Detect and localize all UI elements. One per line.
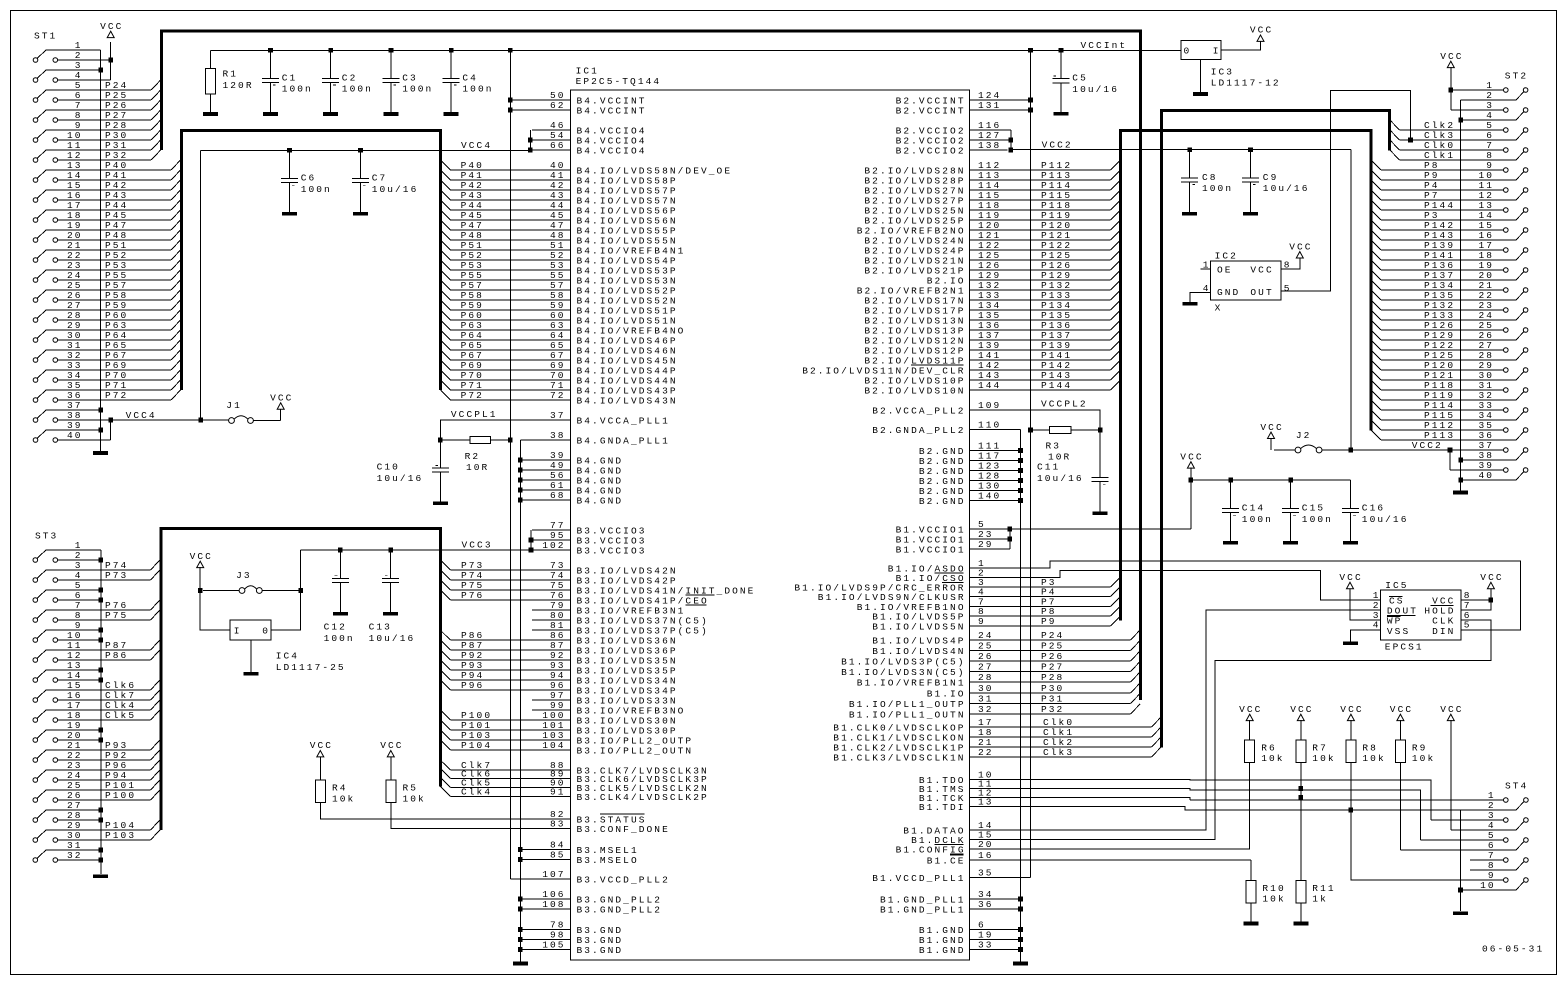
svg-text:0: 0 — [1184, 45, 1192, 56]
svg-text:06-05-31: 06-05-31 — [1482, 944, 1544, 955]
svg-text:10u/16: 10u/16 — [1072, 84, 1119, 95]
svg-text:10u/16: 10u/16 — [1362, 514, 1409, 525]
svg-text:R7: R7 — [1312, 742, 1328, 753]
svg-text:B4.VCCINT: B4.VCCINT — [577, 105, 647, 116]
capacitor C16 10u/16 — [1342, 480, 1408, 541]
svg-text:P72: P72 — [105, 390, 128, 401]
ground R11 — [1293, 922, 1308, 926]
wire TCK net IC1 pin12 to ST4 pin1 — [1008, 798, 1191, 801]
IC1 right pins: stubs, numbers, names — [794, 90, 1007, 956]
svg-text:B1.IO/LVDS4N: B1.IO/LVDS4N — [872, 646, 965, 657]
svg-text:OUT: OUT — [1250, 287, 1273, 298]
wire IC2 OUT to Clk3 net — [1281, 90, 1413, 291]
node VCC2 label — [1042, 139, 1073, 150]
capacitor C11 10u/16 — [1037, 430, 1109, 511]
svg-text:VCC: VCC — [1250, 25, 1273, 36]
svg-text:10u/16: 10u/16 — [1037, 473, 1084, 484]
wire bundle P24-P32 IC1 to bus A with labels — [1008, 630, 1141, 715]
date stamp — [1482, 944, 1544, 955]
svg-text:P103: P103 — [105, 830, 136, 841]
svg-text:P96: P96 — [461, 680, 484, 691]
capacitor C5 10u/16 — [1053, 50, 1119, 111]
ground C4 — [444, 112, 459, 116]
svg-text:DIN: DIN — [1432, 626, 1455, 637]
svg-text:B4.VCCIO4: B4.VCCIO4 — [577, 145, 647, 156]
svg-text:68: 68 — [550, 490, 566, 501]
ST3 signal fan diagonals into bus C — [151, 560, 161, 840]
svg-text:35: 35 — [978, 868, 994, 879]
svg-text:B1.CLK3/LVDSCLK1N: B1.CLK3/LVDSCLK1N — [833, 752, 965, 763]
wire J1 to VCC — [280, 409, 282, 420]
svg-text:B1.IO: B1.IO — [927, 688, 966, 699]
connector ST1 header — [33, 30, 201, 442]
svg-text:Clk3: Clk3 — [1043, 747, 1074, 758]
svg-text:138: 138 — [978, 140, 1001, 151]
jumper J2 with VCC to VCC2 — [1274, 430, 1351, 453]
svg-text:91: 91 — [550, 787, 566, 798]
svg-text:5: 5 — [1284, 283, 1292, 294]
bus D thick: P112-P144 / ST2 loop — [1121, 130, 1371, 620]
VCC symbol at IC5 WP — [1339, 572, 1362, 589]
svg-text:VCC: VCC — [1440, 704, 1463, 715]
svg-text:R5: R5 — [403, 782, 419, 793]
svg-text:108: 108 — [542, 899, 565, 910]
ST2 GND rail pins 2,4,38,40 — [1458, 100, 1463, 491]
svg-text:C2: C2 — [342, 72, 358, 83]
ground C5 — [1054, 112, 1069, 116]
svg-text:B3.MSELO: B3.MSELO — [577, 855, 639, 866]
wire TDI net IC1 pin13 — [1008, 807, 1461, 811]
svg-text:X: X — [1215, 303, 1223, 314]
svg-text:P73: P73 — [105, 570, 128, 581]
svg-text:16: 16 — [978, 850, 994, 861]
ST1 GND rail x=100.6 with junctions — [98, 50, 103, 451]
oscillator IC2 — [1203, 251, 1292, 314]
svg-text:P27: P27 — [1041, 662, 1064, 673]
svg-text:B2.VCCIO2: B2.VCCIO2 — [896, 145, 966, 156]
svg-text:107: 107 — [542, 869, 565, 880]
svg-text:B1.VCCIO1: B1.VCCIO1 — [896, 544, 966, 555]
svg-text:C5: C5 — [1072, 73, 1088, 84]
svg-text:R6: R6 — [1261, 742, 1277, 753]
wire bundle P73-P76 P86-P104 Clk from bus C to IC1 with labels — [440, 560, 532, 798]
svg-text:VCC: VCC — [1260, 422, 1283, 433]
svg-text:10k: 10k — [1412, 753, 1435, 764]
ground C7 — [353, 212, 368, 216]
svg-text:R3: R3 — [1046, 441, 1062, 452]
svg-text:28: 28 — [978, 672, 994, 683]
svg-text:B1.IO/LVDS3P(C5): B1.IO/LVDS3P(C5) — [841, 656, 966, 667]
resistor R8 10k with VCC TDI pullup — [1340, 704, 1385, 880]
svg-text:B1.IO/PLL1_OUTN: B1.IO/PLL1_OUTN — [849, 709, 966, 720]
node VCC4 label — [461, 140, 492, 151]
svg-text:VCC: VCC — [1250, 265, 1273, 276]
VCC symbol at IC5 pin8 — [1480, 572, 1503, 589]
svg-text:VCC4: VCC4 — [126, 410, 157, 421]
jumper J1 — [201, 400, 281, 423]
svg-text:36: 36 — [978, 899, 994, 910]
svg-text:VCC: VCC — [190, 551, 213, 562]
svg-text:C1: C1 — [282, 72, 298, 83]
svg-text:VCC: VCC — [1339, 572, 1362, 583]
svg-text:B2.VCCINT: B2.VCCINT — [896, 105, 966, 116]
svg-text:B1.IO/PLL1_OUTP: B1.IO/PLL1_OUTP — [849, 699, 966, 710]
svg-text:B2.GND: B2.GND — [919, 496, 966, 507]
svg-text:B1.GND: B1.GND — [919, 945, 966, 956]
ST1 VCC rail x=110.7 — [108, 42, 113, 80]
svg-text:B1.VCCD_PLL1: B1.VCCD_PLL1 — [872, 873, 965, 884]
svg-text:P144: P144 — [1041, 380, 1072, 391]
svg-text:C9: C9 — [1263, 172, 1279, 183]
svg-text:26: 26 — [978, 651, 994, 662]
wire IC5 pin3 WP to VCC — [1350, 589, 1380, 620]
svg-text:C4: C4 — [462, 72, 478, 83]
svg-text:VCC: VCC — [1340, 704, 1363, 715]
svg-text:EP2C5-TQ144: EP2C5-TQ144 — [576, 76, 662, 87]
VCC symbol above C14 — [1180, 451, 1203, 482]
ground C11 — [1093, 511, 1108, 515]
capacitor C7 10u/16 — [352, 150, 418, 212]
svg-text:J1: J1 — [226, 400, 242, 411]
svg-text:VCC4: VCC4 — [461, 140, 492, 151]
ST3 GND rail x=100.9 junctions — [99, 550, 104, 874]
capacitor C9 10u/16 — [1242, 150, 1309, 212]
svg-text:29: 29 — [978, 539, 994, 550]
svg-text:C14: C14 — [1242, 503, 1265, 514]
svg-text:IC2: IC2 — [1215, 251, 1238, 262]
node VCCInt label — [1081, 40, 1128, 51]
svg-text:10R: 10R — [466, 462, 489, 473]
svg-text:C3: C3 — [402, 72, 418, 83]
ST1 pin13-36 fan diagonals into bus B — [171, 160, 181, 400]
svg-text:140: 140 — [978, 491, 1001, 502]
svg-text:13: 13 — [978, 797, 994, 808]
svg-text:110: 110 — [978, 420, 1001, 431]
svg-text:100n: 100n — [324, 633, 355, 644]
svg-text:100n: 100n — [282, 84, 313, 95]
svg-text:10u/16: 10u/16 — [377, 473, 424, 484]
wire IC5 pin8 pin7 to VCC — [1461, 589, 1493, 610]
svg-text:20: 20 — [978, 839, 994, 850]
svg-text:P75: P75 — [105, 610, 128, 621]
svg-text:VCC: VCC — [100, 21, 123, 32]
svg-text:LD1117-12: LD1117-12 — [1211, 78, 1281, 89]
resistor R9 10k with VCC to ST4 pin6 — [1390, 704, 1435, 850]
svg-text:104: 104 — [542, 740, 565, 751]
svg-text:B4.IO/LVDS43N: B4.IO/LVDS43N — [577, 395, 678, 406]
svg-text:100n: 100n — [462, 84, 493, 95]
svg-text:P72: P72 — [461, 390, 484, 401]
VCC symbol at J2 — [1260, 422, 1283, 450]
svg-text:B3.VCCD_PLL2: B3.VCCD_PLL2 — [577, 874, 670, 885]
ground C15 — [1283, 541, 1298, 545]
svg-text:0: 0 — [262, 625, 270, 636]
svg-text:B1.GND_PLL1: B1.GND_PLL1 — [880, 904, 966, 915]
svg-text:P86: P86 — [105, 650, 128, 661]
wire VCC2 rail down x=1350.9 — [1350, 150, 1352, 450]
svg-text:ST3: ST3 — [35, 530, 58, 541]
VCC symbol above ST2 — [1440, 51, 1463, 68]
svg-text:P32: P32 — [1041, 704, 1064, 715]
ground R1 — [203, 112, 218, 116]
wire IC3 ground lead — [1199, 59, 1201, 92]
svg-text:B1.IO/LVDS5N: B1.IO/LVDS5N — [872, 621, 965, 632]
wire VCCInt net y=50 — [211, 48, 1181, 53]
wire VCCIO3 pin tie x=531 — [529, 530, 534, 552]
serial config device IC5 EPCS1 — [1373, 580, 1472, 653]
svg-text:P100: P100 — [105, 790, 136, 801]
svg-text:100n: 100n — [301, 184, 332, 195]
svg-text:100n: 100n — [1202, 183, 1233, 194]
capacitor C8 100n — [1181, 150, 1233, 212]
capacitor C13 10u/16 — [369, 550, 416, 644]
ground C10 — [433, 501, 448, 505]
ST4 pin wires — [1190, 800, 1516, 890]
wire VCC net y=480 C14-C16 — [1191, 478, 1351, 483]
svg-text:P24: P24 — [1041, 630, 1064, 641]
wire VCC4 net y=150.4 to C6 C7 — [201, 148, 531, 153]
svg-text:40: 40 — [67, 430, 83, 441]
connector ST2 header — [1381, 71, 1528, 482]
resistor R6 10k with VCC nCONFIG pullup — [1008, 704, 1285, 849]
svg-text:B3.GND: B3.GND — [577, 945, 624, 956]
svg-text:10k: 10k — [332, 794, 355, 805]
svg-text:VSS: VSS — [1387, 626, 1410, 637]
svg-text:B3.GND_PLL2: B3.GND_PLL2 — [577, 904, 663, 915]
wire VCC3 net y=550 — [301, 548, 531, 553]
wire VCCIO1 pin tie x=1009.8 — [1008, 527, 1013, 549]
VCC symbol at IC2 — [1289, 241, 1312, 258]
svg-text:9: 9 — [978, 616, 986, 627]
svg-text:105: 105 — [542, 940, 565, 951]
wire VCCIO2 pin tie x=1010.9 — [1009, 130, 1014, 152]
svg-text:P28: P28 — [1041, 672, 1064, 683]
svg-text:C15: C15 — [1302, 503, 1325, 514]
svg-text:Clk5: Clk5 — [105, 710, 136, 721]
ground IC4 — [243, 672, 258, 676]
svg-text:B4.VCCA_PLL1: B4.VCCA_PLL1 — [577, 415, 670, 426]
node VCC3 label — [462, 540, 493, 551]
wire GND left rail x=520.4 — [518, 440, 523, 962]
wire ST1 pin38/40 VCC4 tie — [108, 418, 203, 440]
svg-text:VCCInt: VCCInt — [1081, 40, 1128, 51]
svg-text:R10: R10 — [1262, 883, 1285, 894]
svg-text:VCC: VCC — [1390, 704, 1413, 715]
svg-text:R11: R11 — [1312, 883, 1335, 894]
svg-text:C13: C13 — [369, 622, 392, 633]
ST4 GND rail — [1458, 810, 1463, 911]
wire bundle P3-P9 IC1 to bus D with labels — [1008, 577, 1121, 627]
connector ST3 header — [33, 530, 151, 862]
VCC symbol at IC3 — [1250, 25, 1273, 42]
ground C2 — [323, 112, 338, 116]
resistor R10 10k nCE pulldown — [1246, 860, 1286, 922]
resistor R5 10k with VCC — [380, 740, 532, 828]
svg-text:VCC: VCC — [380, 740, 403, 751]
resistor R3 10R — [1031, 426, 1103, 462]
svg-text:10k: 10k — [1262, 894, 1285, 905]
wire TMS net IC1 pin11 to ST4 pin5 — [1008, 789, 1421, 841]
svg-text:4: 4 — [1373, 620, 1381, 631]
wire VCCInt left rail x=510.4 — [508, 50, 513, 879]
svg-text:P31: P31 — [1041, 694, 1064, 705]
svg-text:100n: 100n — [1242, 514, 1273, 525]
svg-text:66: 66 — [550, 140, 566, 151]
svg-text:B3.IO/PLL2_OUTN: B3.IO/PLL2_OUTN — [577, 745, 694, 756]
svg-text:P76: P76 — [461, 590, 484, 601]
svg-text:32: 32 — [67, 850, 83, 861]
svg-text:83: 83 — [550, 819, 566, 830]
ground C1 — [263, 112, 278, 116]
VCC symbol above ST4 pin4 — [1440, 704, 1463, 830]
bus B thick: ST1 P40-P72 loop — [182, 130, 441, 390]
svg-text:32: 32 — [978, 704, 994, 715]
resistor R4 10k with VCC — [310, 740, 532, 819]
wire IC2 pin1 stub — [1201, 268, 1211, 270]
svg-text:B3.CLK4/LVDSCLK2P: B3.CLK4/LVDSCLK2P — [577, 792, 709, 803]
wire nCE net IC1 pin16 to R10 — [1008, 859, 1251, 861]
VCC symbol at J3 — [190, 551, 213, 591]
svg-text:B1.IO/VREFB1N1: B1.IO/VREFB1N1 — [857, 677, 966, 688]
resistor R1 120R — [206, 50, 254, 112]
svg-text:B2.GNDA_PLL2: B2.GNDA_PLL2 — [872, 425, 965, 436]
wire IC2 pin4 to ground — [1190, 293, 1211, 302]
svg-text:R2: R2 — [465, 451, 481, 462]
svg-text:ST1: ST1 — [34, 30, 57, 41]
wire VCC2 to ST2 pin37 — [1349, 448, 1450, 453]
capacitor C10 10u/16 — [377, 440, 449, 501]
ground ST3 rail — [93, 874, 108, 878]
ground ST4 — [1453, 912, 1468, 916]
bus C thick: ST3 loop — [161, 529, 440, 830]
VCC symbol above ST1 — [100, 21, 123, 38]
svg-text:VCC3: VCC3 — [462, 540, 493, 551]
wire VCC2 net y=149.6 — [1011, 147, 1351, 152]
svg-text:C12: C12 — [324, 622, 347, 633]
svg-text:P26: P26 — [1041, 651, 1064, 662]
ST2 P-signal fan diagonals from bus D — [1371, 160, 1381, 440]
svg-text:10u/16: 10u/16 — [1263, 183, 1310, 194]
ground C14 — [1223, 541, 1238, 545]
wire nCS net: IC1 CSO to IC5 pin1 — [1008, 570, 1381, 600]
svg-text:ST2: ST2 — [1505, 71, 1528, 82]
resistor R11 1k TCK pulldown — [1296, 881, 1336, 922]
svg-text:B1.IO/LVDS4P: B1.IO/LVDS4P — [872, 635, 965, 646]
svg-text:22: 22 — [978, 747, 994, 758]
svg-text:24: 24 — [978, 630, 994, 641]
svg-text:10u/16: 10u/16 — [369, 633, 416, 644]
svg-text:B1.CE: B1.CE — [927, 855, 966, 866]
voltage regulator IC3 LD1117-12 — [1181, 41, 1281, 89]
bus E thick: Clk0-Clk3 loop — [1161, 111, 1389, 748]
svg-text:I: I — [1213, 45, 1221, 56]
svg-text:10k: 10k — [403, 794, 426, 805]
ground ST2 rail — [1453, 491, 1468, 495]
wire GND right rail x=1020.5 — [1018, 430, 1023, 962]
svg-text:P9: P9 — [1041, 616, 1057, 627]
svg-text:I: I — [234, 625, 242, 636]
wire IC4 output rail — [271, 550, 301, 630]
svg-text:5: 5 — [1464, 620, 1472, 631]
ST2 VCC rail pins 1,3 — [1449, 67, 1454, 110]
capacitor C14 100n — [1222, 480, 1273, 541]
ground C3 — [384, 112, 399, 116]
wire VCCIO1 net to VCC y=529 — [1008, 480, 1191, 529]
svg-text:Clk4: Clk4 — [461, 787, 492, 798]
svg-text:B2.IO/LVDS10N: B2.IO/LVDS10N — [864, 385, 965, 396]
svg-text:27: 27 — [978, 662, 994, 673]
ground ST1 rail — [93, 451, 108, 455]
jumper J3 with VCC — [198, 570, 303, 593]
svg-text:10k: 10k — [1312, 753, 1335, 764]
capacitor C6 100n — [281, 150, 332, 212]
svg-text:62: 62 — [550, 100, 566, 111]
svg-text:40: 40 — [1479, 470, 1495, 481]
svg-text:J2: J2 — [1296, 430, 1312, 441]
wire VCCInt right rail x=1030.5 — [1028, 50, 1033, 877]
svg-text:C7: C7 — [372, 173, 388, 184]
ground IC5 — [1343, 642, 1358, 646]
svg-text:VCC: VCC — [1289, 241, 1312, 252]
svg-text:85: 85 — [550, 850, 566, 861]
ST2 VCC2 link pins 37,39 — [1448, 448, 1453, 470]
capacitor C3 100n — [383, 50, 434, 112]
svg-text:37: 37 — [550, 410, 566, 421]
ground C12 — [333, 612, 348, 616]
capacitor C15 100n — [1282, 480, 1333, 541]
svg-text:25: 25 — [978, 641, 994, 652]
svg-text:100n: 100n — [342, 84, 373, 95]
node VCCPL1 label and wire — [440, 409, 532, 440]
svg-text:C8: C8 — [1202, 172, 1218, 183]
wire bundle P40-P72 from bus B to IC1 with labels — [441, 160, 532, 401]
svg-text:R9: R9 — [1412, 742, 1428, 753]
op-amp U1 IC1 EP2C5-TQ144 body — [571, 66, 970, 960]
svg-text:VCCPL2: VCCPL2 — [1041, 399, 1088, 410]
svg-text:GND: GND — [1217, 287, 1240, 298]
ground R10 — [1243, 922, 1258, 926]
svg-text:131: 131 — [978, 100, 1001, 111]
ground IC3 — [1193, 92, 1208, 96]
svg-text:IC3: IC3 — [1211, 66, 1234, 77]
svg-text:109: 109 — [978, 400, 1001, 411]
wire DCLK net: IC5 CLK to IC1 pin15 — [1008, 620, 1491, 840]
IC1 right pin label decorations — [911, 365, 963, 855]
svg-text:B3.VCCIO3: B3.VCCIO3 — [577, 545, 647, 556]
svg-text:VCC2: VCC2 — [1042, 139, 1073, 150]
svg-text:144: 144 — [978, 380, 1001, 391]
svg-text:31: 31 — [978, 694, 994, 705]
svg-text:P25: P25 — [1041, 641, 1064, 652]
wire IC2 pin8 to VCC — [1281, 258, 1300, 269]
svg-text:VCC: VCC — [1239, 704, 1262, 715]
svg-text:VCCPL1: VCCPL1 — [451, 409, 498, 420]
svg-text:B1.TDI: B1.TDI — [919, 802, 966, 813]
ground IC2 — [1182, 302, 1197, 306]
svg-text:C11: C11 — [1037, 462, 1060, 473]
ground left rail — [513, 962, 528, 966]
svg-text:OE: OE — [1217, 265, 1233, 276]
wire VCCIO4 pin tie x=530.4 — [528, 130, 533, 152]
svg-text:B3.CONF_DONE: B3.CONF_DONE — [577, 824, 670, 835]
voltage regulator IC4 LD1117-25 — [200, 591, 346, 673]
svg-text:30: 30 — [978, 683, 994, 694]
capacitor C1 100n — [262, 50, 313, 112]
node VCCPL2 label and wire — [1008, 399, 1101, 431]
svg-text:P30: P30 — [1041, 683, 1064, 694]
bus A thick: ST1 P24-P32 loop top — [162, 31, 1141, 700]
svg-text:33: 33 — [978, 940, 994, 951]
